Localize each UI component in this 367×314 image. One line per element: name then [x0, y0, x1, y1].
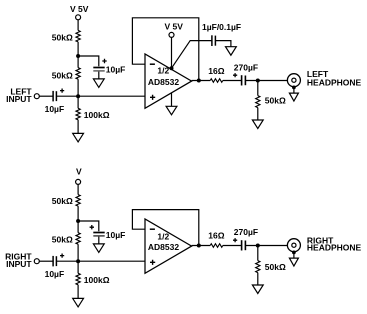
ground below R3 [73, 133, 84, 142]
wire supply to R6 [77, 185, 79, 195]
wire node D to bypass cap C5 [78, 221, 99, 231]
svg-text:16Ω: 16Ω [208, 230, 224, 240]
wire R8 to ground [77, 285, 79, 299]
svg-text:AD8532: AD8532 [148, 242, 179, 252]
wire R1 to R2 through node A [77, 42, 79, 68]
node V+ junction on op-amp [170, 66, 174, 70]
op-amp U1a minus sign [150, 63, 155, 65]
resistor R1 50k (upper bias) [76, 30, 80, 42]
op-amp U1a triangle [145, 54, 192, 108]
resistor R6 50k (upper bias right) [76, 195, 80, 207]
wire R3 to ground [77, 120, 79, 134]
resistor R9 16ohm [210, 244, 223, 248]
resistor R5 50k load [256, 96, 260, 108]
capacitor C5 10uF plates [93, 232, 104, 234]
svg-text:V 5V: V 5V [164, 22, 183, 32]
supply terminal circle V (right) [76, 179, 81, 184]
wire C2 to op-amp noninverting input [56, 95, 145, 97]
capacitor C7 270uF polarity plus [233, 238, 237, 242]
capacitor C2 10uF input coupling plates [52, 91, 54, 102]
node C junction (output/load) [256, 79, 260, 83]
resistor R3 100k [76, 108, 80, 119]
op-amp U1b minus sign [150, 228, 155, 230]
ground below C1 [93, 79, 104, 88]
svg-text:1/2: 1/2 [157, 65, 169, 75]
resistor R7 50k (lower bias right) [76, 233, 80, 245]
node U1a output junction [197, 79, 201, 83]
svg-text:50kΩ: 50kΩ [52, 32, 73, 42]
ground below R8 [73, 298, 84, 307]
jack J1 left headphone outer ring [287, 74, 300, 87]
wire U1a output to R4 [192, 80, 211, 82]
capacitor C6 10uF input coupling plates [52, 256, 54, 267]
capacitor C4 270uF plates [241, 75, 243, 85]
capacitor C1 10uF plates [93, 67, 104, 69]
capacitor C1 10uF polarity plus [102, 59, 106, 63]
svg-text:50kΩ: 50kΩ [265, 262, 286, 272]
node jack sleeve junction right [292, 251, 296, 255]
input terminal circle (right) [34, 259, 39, 264]
svg-text:16Ω: 16Ω [208, 66, 224, 76]
capacitor C5 10uF polarity plus [90, 225, 94, 229]
wire input terminal to C6 [39, 260, 53, 262]
jack J1 inner contact [292, 78, 296, 82]
jack J2 inner contact [292, 243, 296, 247]
resistor R4 16ohm [210, 79, 223, 83]
wire jack sleeve to ground right [293, 252, 295, 258]
wire R6 to R7 through node D [77, 206, 79, 233]
svg-text:10µF: 10µF [45, 269, 65, 279]
wire feedback loop U1a output to inverting input [132, 18, 198, 81]
svg-text:270µF: 270µF [234, 227, 258, 237]
ground below op-amp U1a [166, 106, 177, 115]
ground below R10 [252, 285, 263, 294]
wire R10 to ground [257, 273, 259, 285]
input terminal circle (left) [34, 94, 39, 99]
svg-text:10µF: 10µF [45, 104, 65, 114]
capacitor C3 1uF/0.1uF plates [211, 35, 213, 46]
wire R9 to C7 [223, 245, 242, 247]
ground below jack J1 [289, 93, 298, 101]
supply terminal circle V5V [76, 15, 81, 20]
svg-text:HEADPHONE: HEADPHONE [307, 77, 362, 87]
wire node A to bypass cap C1 [78, 56, 99, 66]
svg-text:50kΩ: 50kΩ [52, 196, 73, 206]
wire feedback loop U1b output to inverting input [132, 210, 198, 246]
wire op-amp V+ pin [171, 37, 173, 68]
capacitor C2 polarity plus [60, 89, 64, 93]
capacitor C6 polarity plus [60, 254, 64, 258]
wire C3 to ground [215, 41, 231, 47]
svg-text:1µF/0.1µF: 1µF/0.1µF [202, 22, 241, 32]
svg-text:AD8532: AD8532 [148, 77, 179, 87]
node jack sleeve junction [292, 86, 296, 90]
wire C7 to jack [245, 245, 287, 247]
svg-text:50kΩ: 50kΩ [265, 95, 286, 105]
svg-text:10µF: 10µF [106, 65, 126, 75]
wire R2 to input node [77, 79, 79, 96]
wire U1b output to R9 [192, 245, 211, 247]
node U1b output junction [197, 244, 201, 248]
wire V+ to bypass capacitor C3 [172, 41, 212, 69]
wire C4 to jack [245, 80, 287, 82]
ground below C3 [226, 47, 237, 56]
wire R4 to C4 [223, 80, 242, 82]
wire input terminal to C2 [39, 95, 53, 97]
op-amp U1b plus sign [150, 260, 155, 265]
wire node B to R3 [77, 96, 79, 108]
wire C5 to ground [98, 237, 100, 244]
jack J2 right headphone outer ring [287, 239, 300, 252]
svg-text:1/2: 1/2 [157, 231, 169, 241]
svg-text:270µF: 270µF [234, 63, 258, 73]
capacitor C4 270uF polarity plus [233, 73, 237, 77]
wire node E to R8 [77, 261, 79, 273]
op-amp U1b triangle [145, 219, 192, 273]
op-amp U1a plus sign [150, 95, 155, 100]
resistor R10 50k load [256, 261, 260, 273]
node F junction (output/load right) [256, 244, 260, 248]
wire R5 to ground [257, 108, 259, 120]
svg-text:50kΩ: 50kΩ [52, 71, 73, 81]
node B junction (input/bias) [76, 94, 80, 98]
node E junction (input/bias right) [76, 259, 80, 263]
svg-text:HEADPHONE: HEADPHONE [307, 243, 362, 253]
svg-text:INPUT: INPUT [6, 259, 32, 269]
wire R7 to input node right [77, 244, 79, 261]
resistor R8 100k [76, 273, 80, 284]
supply terminal circle (op-amp V+) [169, 32, 174, 37]
resistor R2 50k (lower bias) [76, 68, 80, 79]
svg-text:10µF: 10µF [106, 230, 126, 240]
wire node C to R5 [257, 81, 259, 96]
wire C6 to op-amp noninverting input [56, 260, 145, 262]
svg-text:50kΩ: 50kΩ [52, 235, 73, 245]
ground below R5 [252, 120, 263, 129]
wire jack sleeve to ground [293, 87, 295, 93]
ground below jack J2 [289, 258, 298, 266]
svg-text:INPUT: INPUT [6, 94, 32, 104]
wire node F to R10 [257, 246, 259, 261]
svg-text:100kΩ: 100kΩ [84, 275, 110, 285]
node A junction (bias midpoint) [76, 54, 80, 58]
svg-text:V 5V: V 5V [70, 4, 89, 14]
svg-text:100kΩ: 100kΩ [84, 110, 110, 120]
svg-text:V: V [76, 167, 82, 177]
wire C1 to ground [98, 72, 100, 79]
ground below C5 [93, 244, 104, 253]
wire op-amp V- pin to ground [171, 93, 173, 107]
capacitor C7 270uF plates [241, 240, 243, 250]
wire supply to R1 [77, 20, 79, 31]
node D junction (bias midpoint right) [76, 219, 80, 223]
